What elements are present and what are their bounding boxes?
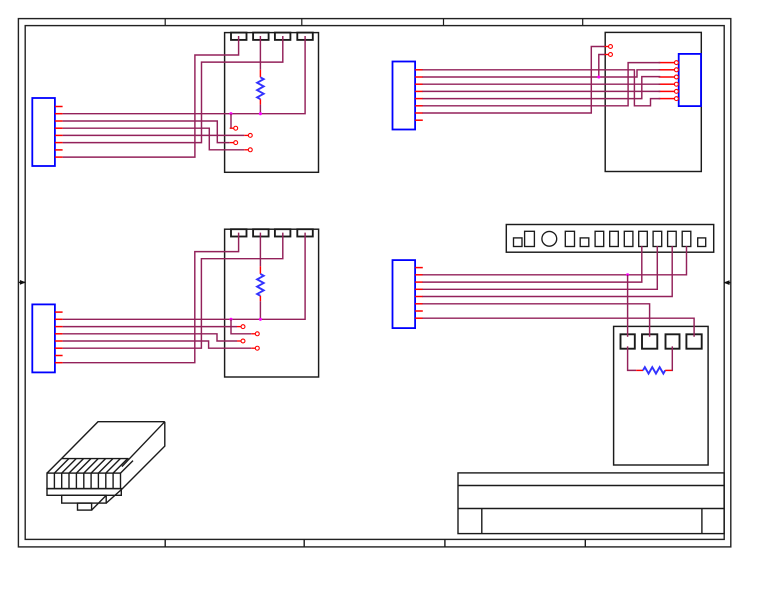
connector J1 pin 6 <box>55 142 63 144</box>
wire J3.7 to open point J <box>422 47 604 114</box>
U5 tall rectangle <box>639 231 648 246</box>
U6 contact square <box>642 334 657 348</box>
connector J2 pin 6 <box>55 347 63 349</box>
wire junction drop to open point A <box>230 114 232 129</box>
connector J5 pin 3 <box>415 281 423 283</box>
U5 circle <box>542 231 557 246</box>
title block cell divider left <box>481 509 483 534</box>
indicator strip U5 outline <box>506 225 713 253</box>
top border zone tick <box>443 19 445 26</box>
connector J2 pin 5 <box>55 340 63 342</box>
junction on U2 common row <box>229 318 232 321</box>
connector J3 pin 5 <box>415 98 423 100</box>
right border centering arrow <box>724 282 731 284</box>
U5 tall rectangle <box>682 231 691 246</box>
U5 small square 2 <box>580 238 589 247</box>
connector J4 pin 3 <box>659 76 675 78</box>
wire branch to open point K <box>599 55 605 78</box>
left border centering arrow <box>18 281 25 283</box>
connector J5 body <box>393 260 416 328</box>
wire J3.3 to J4 pin4 <box>422 83 660 85</box>
wire J5.3 to strip <box>422 246 641 282</box>
open endpoint C <box>230 142 234 144</box>
title block cell divider right <box>701 509 703 534</box>
open endpoint E <box>237 326 241 328</box>
U2 top contact pad <box>275 229 291 236</box>
component U2 box <box>225 229 319 377</box>
wire J2.2 common row to U2 pad4 <box>63 233 306 320</box>
connector J3 pin 4 <box>415 90 423 92</box>
wire J5.4 to strip <box>422 246 657 289</box>
wire J1.2 common row to U1 pad4 <box>63 36 306 114</box>
wire J3.4 to J4 pin5 <box>422 90 660 92</box>
connector J2 body <box>32 304 55 372</box>
U5 tall rectangle <box>624 231 633 246</box>
connector J1 body <box>32 98 55 166</box>
connector J2 pin 1 <box>55 311 63 313</box>
connector J5 pin 7 <box>415 310 423 312</box>
drawing frame inner border <box>25 26 724 540</box>
U2 top contact pad <box>253 229 269 236</box>
top border zone tick <box>301 19 303 26</box>
U1 top contact pad <box>275 33 291 40</box>
open endpoint D <box>244 149 248 151</box>
connector J3 pin 7 <box>415 112 423 114</box>
U1 top contact pad <box>231 33 247 40</box>
connector J1 pin 7 <box>55 149 63 151</box>
wire J1.8 up to U1 pad1 <box>63 36 239 157</box>
connector J5 pin 4 <box>415 288 423 290</box>
connector J1 pin 8 <box>55 156 63 158</box>
wire J2.4 to open point G <box>63 334 237 341</box>
component U3 box <box>605 32 701 171</box>
junction on J5.2 row <box>626 273 629 276</box>
connector J2 pin 4 <box>55 333 63 335</box>
title block row line 1 <box>458 485 724 487</box>
wire J5.5 to strip <box>422 246 672 297</box>
connector J2 pin 8 <box>55 362 63 364</box>
connector J2 pin 2 <box>55 318 63 320</box>
wire J5.8 to U6 sq4 <box>422 318 694 337</box>
junction at resistor R2 bottom <box>259 318 262 321</box>
connector J3 pin 6 <box>415 105 423 107</box>
U5 tall rectangle <box>595 231 604 246</box>
open endpoint F <box>251 333 255 335</box>
U5 tall rectangle <box>668 231 677 246</box>
connector J4 pin 2 <box>659 69 675 71</box>
bottom border zone tick <box>164 539 166 547</box>
U5 tall rectangle <box>653 231 662 246</box>
wire J1.6 up to U1 pad3 <box>63 36 283 143</box>
component U6 box <box>614 326 709 465</box>
wire J3.2 to J4 pin2 <box>422 70 660 77</box>
wire junction drop to open point F <box>231 319 251 334</box>
connector J3 body <box>393 62 416 130</box>
component U1 box <box>225 33 319 173</box>
open endpoint H <box>251 347 255 349</box>
open endpoint G <box>237 340 241 342</box>
resistor R1 <box>259 36 261 70</box>
connector J4 pin 6 <box>659 98 675 100</box>
wire J1.4 to open point D <box>63 128 245 150</box>
wire J3.5 to J4 pin3 <box>422 77 660 99</box>
U1 top contact pad <box>253 33 269 40</box>
connector J5 pin 2 <box>415 274 423 276</box>
top border zone tick <box>582 19 584 26</box>
connector J1 pin 1 <box>55 106 63 108</box>
junction on common row <box>229 112 232 115</box>
open endpoint B <box>244 134 248 136</box>
U1 top contact pad <box>297 33 313 40</box>
title block row line 2 <box>458 508 724 510</box>
connector J3 pin 3 <box>415 83 423 85</box>
open endpoint A <box>230 127 234 129</box>
connector J1 pin 5 <box>55 134 63 136</box>
connector J1 pin 3 <box>55 120 63 122</box>
bottom border zone tick <box>444 539 446 547</box>
U5 tall rectangle <box>610 231 619 246</box>
open endpoint K <box>605 54 609 56</box>
connector J5 pin 6 <box>415 303 423 305</box>
U2 top contact pad <box>231 229 247 236</box>
wire J3.1 to J4 pin6 <box>422 70 660 106</box>
connector J4 pin 5 <box>659 90 675 92</box>
connector J1 pin 2 <box>55 113 63 115</box>
connector J4 pin 4 <box>659 83 675 85</box>
open endpoint J <box>605 46 609 48</box>
U5 small square 3 <box>698 238 706 247</box>
connector J3 pin 1 <box>415 69 423 71</box>
wire J1.3 to open point C <box>63 121 230 143</box>
wire J5.6 to U6 sq2 <box>422 304 649 337</box>
U6 contact square <box>686 334 701 348</box>
U2 top contact pad <box>297 229 313 236</box>
connector J3 pin 8 <box>415 119 423 121</box>
top border zone tick <box>164 19 166 26</box>
bottom border zone tick <box>584 539 586 547</box>
wire J5.2 common row to strip pin and U6 sq1 <box>422 246 686 275</box>
U5 tall rectangle 1 <box>525 231 535 246</box>
connector J2 pin 7 <box>55 355 63 357</box>
connector J5 pin 8 <box>415 317 423 319</box>
wire J2.3 to open point E <box>63 326 237 328</box>
connector J5 pin 5 <box>415 296 423 298</box>
connector J4 pin 1 <box>659 62 675 64</box>
U5 small square 1 <box>514 238 523 247</box>
resistor R4 <box>628 346 637 370</box>
U6 contact square <box>621 334 635 348</box>
U5 tall rectangle 2 <box>565 231 574 246</box>
wire J2.6 up to U2 pad3 <box>63 233 283 349</box>
U6 contact square <box>666 334 680 348</box>
wire J2.8 up to U2 pad1 <box>63 233 239 363</box>
wire J2.5 to open point H <box>63 341 252 348</box>
junction on J3.2 wire <box>597 75 600 78</box>
connector J1 pin 4 <box>55 127 63 129</box>
wire junction drop to U6 sq1 <box>627 275 629 337</box>
title block frame <box>458 473 724 534</box>
connector J3 pin 2 <box>415 76 423 78</box>
connector J2 pin 3 <box>55 326 63 328</box>
wire J3.6 to J4 pin1 <box>422 63 660 106</box>
connector J4 body <box>679 54 701 106</box>
bottom border zone tick <box>303 539 305 547</box>
connector P1 3D drawing <box>47 422 165 510</box>
junction at resistor R1 bottom <box>259 112 262 115</box>
resistor R2 <box>259 233 261 267</box>
connector J5 pin 1 <box>415 267 423 269</box>
wire J1.5 to open point B <box>63 134 245 136</box>
